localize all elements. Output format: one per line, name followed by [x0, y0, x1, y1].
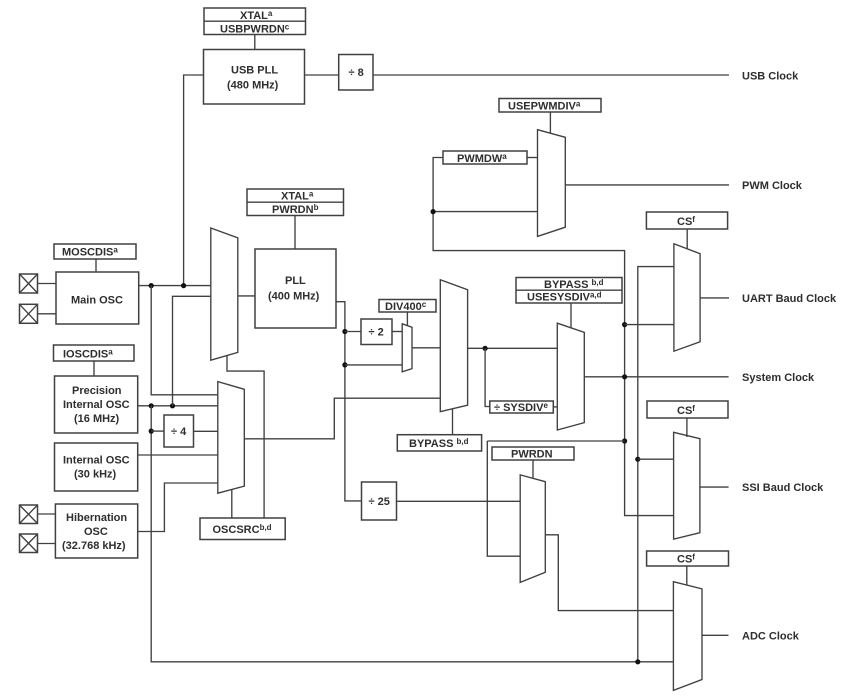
wire PWRDN mux output to ADC mux input 1	[545, 535, 673, 611]
node div2 tap	[342, 329, 347, 334]
wire bypass mux output to sysdiv mux	[468, 347, 558, 349]
svg-text:(30 kHz): (30 kHz)	[74, 469, 117, 481]
wire select MOSCDIS to Main OSC	[95, 259, 97, 272]
crystal pad X2	[20, 304, 38, 323]
wire USB PLL output to div8	[305, 74, 339, 76]
node trunk1 PWRDN tap	[622, 438, 627, 443]
wire X4 to Hibernation OSC	[38, 543, 56, 545]
mux OSCSRC	[218, 382, 245, 494]
wire Main OSC output to PLL-source mux	[139, 285, 211, 287]
wire X1 to Main OSC	[38, 283, 57, 285]
crystal pad X3	[20, 505, 38, 524]
svg-text:PWM Clock: PWM Clock	[742, 180, 803, 192]
svg-text:Precision: Precision	[72, 385, 122, 397]
node main osc branch to USB PLL	[181, 283, 186, 288]
svg-text:Main OSC: Main OSC	[71, 295, 123, 307]
node main osc branch down	[149, 283, 154, 288]
block Hibernation OSC	[55, 504, 137, 558]
label box BYPASS/USESYSDIV	[516, 278, 622, 304]
label box DIV400	[379, 300, 436, 313]
svg-text:÷ 4: ÷ 4	[171, 426, 187, 438]
crystal pad X4	[20, 534, 38, 553]
wire select USEPWMDIV to PWM mux	[549, 112, 551, 133]
divider ÷25	[362, 482, 397, 520]
node div400-mux bypass tap	[342, 362, 347, 367]
svg-text:(400 MHz): (400 MHz)	[268, 291, 320, 303]
wire div2 output to div400 mux	[392, 331, 402, 333]
svg-text:PWMDWa: PWMDWa	[457, 152, 507, 165]
svg-text:PLL: PLL	[285, 275, 306, 287]
wire X3 to Hibernation OSC	[38, 513, 56, 515]
node piosc branch up	[170, 403, 175, 408]
wire SSI Baud Clock output	[700, 486, 729, 488]
node trunk2 ADC junction	[635, 659, 640, 664]
wire Hibernation output to OSCSRC mux input 5	[138, 483, 218, 532]
divider ÷8	[339, 55, 373, 91]
svg-text:USB Clock: USB Clock	[742, 70, 799, 82]
svg-text:IOSCDISa: IOSCDISa	[63, 347, 113, 360]
mux SSI	[674, 432, 700, 539]
wire PWM Clock output	[565, 184, 729, 186]
divider ÷2	[361, 319, 392, 345]
node trunk1 system clock junction	[622, 374, 627, 379]
label box USEPWMDIV	[499, 99, 601, 113]
divider ÷4	[164, 415, 194, 447]
wire PLL-source mux output to PLL	[238, 295, 255, 297]
wire trunk1 to UART mux input 2	[625, 324, 674, 326]
wire Precision OSC output to OSCSRC mux input 2	[138, 405, 218, 407]
block Precision Internal OSC	[55, 376, 138, 433]
svg-text:(32.768 kHz): (32.768 kHz)	[62, 540, 126, 552]
label box PWMDW	[443, 151, 527, 165]
node trunk2 SSI tap	[635, 457, 640, 462]
wire piosc down trunk to ADC line	[151, 406, 673, 662]
svg-text:Internal OSC: Internal OSC	[63, 399, 130, 411]
wire select USESYSDIV to sysdiv mux	[570, 303, 572, 328]
mux DIV400	[402, 324, 412, 372]
wire bypass mux select tail	[452, 409, 454, 435]
node sysdiv divider tap	[483, 346, 488, 351]
svg-text:(480 MHz): (480 MHz)	[227, 80, 279, 92]
svg-text:USB PLL: USB PLL	[231, 65, 278, 77]
wire PLL-source mux select tail	[227, 356, 264, 518]
svg-text:÷ 2: ÷ 2	[369, 327, 384, 339]
label box MOSCDIS	[54, 244, 136, 259]
label box XTAL/USBPWRDN	[204, 8, 306, 35]
label box CS UART	[646, 212, 727, 229]
wire OSCSRC mux select tail	[231, 490, 233, 518]
block Internal OSC	[55, 443, 138, 491]
svg-text:DIV400c: DIV400c	[385, 300, 427, 313]
wire div400 mux output to bypass mux	[412, 347, 440, 349]
mux system bypass	[440, 280, 467, 412]
label box PWRDN	[492, 447, 574, 461]
wire PWM mux input 2	[433, 211, 537, 213]
wire select XTAL/USBPWRDN to USB PLL	[254, 35, 256, 50]
block USB PLL	[204, 50, 305, 105]
wire Internal OSC output to OSCSRC mux input 4	[138, 454, 218, 456]
label box IOSCDIS	[54, 345, 135, 361]
wire to div4	[151, 430, 164, 432]
wire main osc down to OSCSRC mux input 1	[151, 286, 218, 395]
wire div400 mux input 2	[345, 364, 402, 366]
svg-text:SSI Baud Clock: SSI Baud Clock	[742, 482, 824, 494]
mux PWM	[538, 130, 566, 237]
label box XTAL/PWRDN	[247, 189, 344, 216]
wire X2 to Main OSC	[38, 313, 57, 315]
svg-text:÷ 8: ÷ 8	[349, 67, 364, 79]
svg-text:Internal OSC: Internal OSC	[63, 455, 130, 467]
wire UART/SSI/ADC piosc trunk	[638, 267, 674, 663]
mux PWRDN	[520, 475, 545, 583]
svg-text:USBPWRDNc: USBPWRDNc	[220, 22, 290, 35]
wire trunk2 to SSI mux input 1	[638, 458, 674, 460]
svg-text:PWRDN: PWRDN	[511, 449, 553, 461]
svg-text:UART Baud Clock: UART Baud Clock	[742, 293, 837, 305]
wire USB PLL input from Main OSC trunk	[184, 75, 204, 286]
svg-text:(16 MHz): (16 MHz)	[74, 413, 120, 425]
mux UART	[674, 244, 700, 351]
svg-text:PWRDNb: PWRDNb	[272, 203, 319, 216]
mux PLL source	[211, 228, 238, 360]
block PLL	[255, 249, 336, 328]
block Main OSC	[56, 272, 139, 324]
wire ADC Clock output	[702, 634, 729, 636]
wire div25 output to PWRDN mux input 1	[397, 500, 521, 502]
svg-text:Hibernation: Hibernation	[66, 512, 127, 524]
wire div4 output to OSCSRC mux input 3	[194, 430, 218, 432]
wire select XTAL/PWRDN to PLL	[294, 216, 296, 250]
svg-text:÷ 25: ÷ 25	[369, 496, 390, 508]
wire SYSDIV divider output to sysdiv mux input 2	[553, 406, 557, 408]
wire PWMDW output to PWM mux	[527, 157, 538, 159]
svg-text:System Clock: System Clock	[742, 372, 815, 384]
svg-text:÷ SYSDIVe: ÷ SYSDIVe	[494, 401, 548, 414]
node PWM feedback tap	[431, 209, 436, 214]
label box CS SSI	[647, 401, 728, 418]
node trunk1 UART tap	[622, 322, 627, 327]
wire USB Clock line	[373, 74, 729, 76]
wire select CS to ADC mux	[686, 566, 688, 585]
wire trunk1 to PWRDN mux input 2	[487, 441, 624, 556]
mux SYSDIV	[557, 323, 584, 430]
svg-text:ADC Clock: ADC Clock	[742, 630, 800, 642]
wire select DIV400 to div400 mux	[406, 312, 408, 325]
wire System Clock output	[584, 376, 728, 378]
wire OSCSRC mux output to bypass mux input 2	[244, 398, 440, 439]
wire piosc up to PLL-source mux input 2	[173, 296, 211, 406]
label box CS ADC	[647, 551, 729, 566]
wire system clock feedback trunk to PWM divider	[433, 158, 673, 516]
label box BYPASS lower	[397, 435, 481, 451]
wire select IOSCDIS to Precision OSC	[93, 361, 95, 376]
wire select CS to SSI mux	[686, 418, 688, 437]
node piosc branch down	[149, 403, 154, 408]
crystal pad X1	[20, 274, 38, 293]
svg-text:OSC: OSC	[84, 526, 108, 538]
label box OSCSRC	[200, 518, 285, 540]
wire UART Baud Clock output	[700, 297, 729, 299]
wire select CS to UART mux	[686, 229, 688, 249]
wire to div2	[345, 331, 361, 333]
wire tap down to SYSDIV divider	[485, 348, 490, 406]
wire PLL output trunk to div25	[336, 302, 362, 501]
svg-text:USEPWMDIVa: USEPWMDIVa	[508, 99, 581, 112]
svg-text:MOSCDISa: MOSCDISa	[62, 246, 118, 259]
divider ÷SYSDIV	[490, 401, 554, 414]
mux ADC	[673, 582, 702, 691]
node div4 tap	[149, 429, 154, 434]
wire select PWRDN to PWRDN mux	[532, 460, 534, 478]
